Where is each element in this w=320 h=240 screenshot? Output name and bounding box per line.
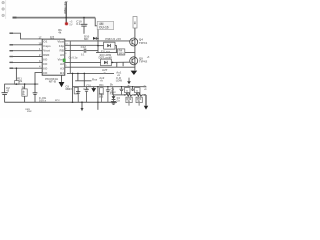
capacitor C7 bbox=[77, 87, 79, 92]
wire vertical bus bbox=[69, 41, 71, 74]
wire bbox=[115, 46, 116, 53]
junction red node bbox=[64, 22, 68, 26]
svg-text:R12: R12 bbox=[110, 93, 115, 95]
svg-text:Caps: Caps bbox=[43, 44, 51, 48]
resistor R50 bbox=[136, 97, 142, 102]
junction bbox=[97, 38, 99, 40]
svg-text:LDW: LDW bbox=[116, 79, 123, 83]
optocoupler D1 bbox=[104, 42, 115, 49]
ground arrow below bus bbox=[81, 102, 83, 108]
svg-text:I/O: I/O bbox=[43, 58, 48, 62]
junction bbox=[97, 86, 98, 87]
junction bbox=[124, 94, 125, 95]
wire bbox=[98, 45, 104, 47]
svg-text:0.1: 0.1 bbox=[76, 22, 81, 26]
wire vertical bbox=[97, 87, 99, 110]
connector stubs left bbox=[10, 32, 14, 34]
svg-text:A0: A0 bbox=[60, 53, 64, 57]
svg-text:Vout: Vout bbox=[43, 49, 49, 53]
short rail bbox=[75, 80, 91, 82]
optocoupler D3 bbox=[101, 59, 112, 66]
wire top +5V bus bbox=[13, 17, 96, 19]
capacitor mini bbox=[132, 87, 134, 89]
svg-text:I/O: I/O bbox=[43, 62, 48, 66]
svg-text:x2 x: x2 x bbox=[55, 100, 60, 102]
svg-text:+k: +k bbox=[103, 71, 107, 75]
svg-text:3R3: 3R3 bbox=[119, 51, 125, 55]
mini ground triangle bbox=[128, 78, 130, 82]
wire row 7 L bbox=[35, 73, 42, 85]
svg-text:TIP41: TIP41 bbox=[139, 41, 148, 45]
svg-text:Vbat: Vbat bbox=[57, 40, 64, 44]
resistor box bbox=[124, 88, 130, 93]
wire stub bbox=[138, 103, 140, 106]
wire row 6 bbox=[10, 67, 42, 69]
resistor box row bbox=[100, 88, 104, 94]
resistor R6 bbox=[24, 84, 26, 89]
connector J1 pin 1 bbox=[2, 1, 4, 3]
wire stub bbox=[116, 62, 118, 67]
wire vertical to R11 bbox=[15, 68, 17, 80]
svg-text:14p: 14p bbox=[59, 44, 64, 48]
ground small bbox=[93, 87, 95, 89]
resistor R49 bbox=[126, 97, 132, 102]
resistor R4 bbox=[118, 49, 125, 55]
transistor Q5 bbox=[130, 57, 138, 65]
svg-text:O1: O1 bbox=[43, 40, 47, 44]
svg-text:C10: C10 bbox=[83, 87, 89, 91]
ground bottom right bbox=[145, 95, 147, 106]
ground below IC bbox=[61, 75, 63, 82]
svg-text:4k8: 4k8 bbox=[21, 91, 25, 96]
diode D4 (vertical) bbox=[113, 95, 115, 96]
connector J1 pin 3 bbox=[2, 14, 4, 16]
diode D10 bbox=[93, 37, 96, 40]
junction bbox=[16, 83, 18, 85]
resistor R11 bbox=[15, 81, 19, 85]
svg-text:2k: 2k bbox=[110, 82, 114, 86]
wire + capacitor C12 bbox=[65, 50, 84, 52]
svg-text:Rxx: Rxx bbox=[92, 78, 98, 82]
svg-text:Gx: Gx bbox=[117, 99, 121, 102]
capacitor C2 bbox=[4, 84, 6, 92]
mid-right rail bbox=[73, 86, 147, 88]
wire row 1 stepped bbox=[10, 33, 42, 39]
wire row 2 bbox=[10, 44, 42, 46]
wire stub bbox=[122, 62, 124, 66]
svg-text:A2: A2 bbox=[60, 62, 64, 66]
ground small left bbox=[111, 101, 116, 103]
junction bbox=[83, 17, 85, 19]
resistor rail with zigzags bbox=[113, 94, 126, 96]
svg-text:MC: MC bbox=[84, 37, 88, 41]
wire crystal bbox=[65, 2, 67, 23]
transistor Q4 bbox=[130, 38, 138, 46]
svg-text:C10: C10 bbox=[86, 84, 91, 87]
wire IC pin right row2 bbox=[65, 44, 98, 46]
junction bbox=[65, 17, 67, 19]
svg-text:B4: B4 bbox=[60, 71, 64, 75]
wire vertical bbox=[112, 87, 114, 95]
resistor box bbox=[134, 88, 140, 93]
svg-text:R11: R11 bbox=[99, 84, 104, 87]
svg-text:RB0: RB0 bbox=[43, 53, 49, 57]
wire vertical net bbox=[97, 30, 99, 53]
svg-text:A3: A3 bbox=[60, 67, 64, 71]
wire row 3 bbox=[10, 50, 42, 52]
capacitor C10 bbox=[86, 87, 88, 90]
svg-text:+k: +k bbox=[100, 78, 104, 82]
svg-text:1k: 1k bbox=[133, 21, 137, 25]
junction bbox=[72, 73, 74, 75]
wire bbox=[134, 28, 136, 70]
capacitor C3 bbox=[34, 84, 36, 93]
svg-text:xxx: xxx bbox=[27, 110, 32, 113]
svg-text:C7: C7 bbox=[69, 87, 73, 91]
wire verticals mid bbox=[72, 73, 74, 102]
junction bbox=[72, 101, 74, 103]
svg-text:4k: 4k bbox=[58, 30, 62, 34]
svg-text:I/O: I/O bbox=[43, 67, 48, 71]
resistor R3 top right bbox=[133, 17, 137, 29]
wire mid rail bbox=[96, 52, 135, 54]
connector J1 pin 2 bbox=[2, 8, 4, 10]
green pin marker bbox=[63, 59, 66, 63]
svg-text:5V: 5V bbox=[69, 23, 73, 27]
wire row 4 bbox=[10, 56, 42, 58]
resistor box bbox=[74, 88, 78, 94]
bottom bus bbox=[4, 101, 117, 103]
svg-text:Cx 0.1u: Cx 0.1u bbox=[69, 57, 78, 60]
wire stub bbox=[128, 103, 130, 106]
capacitor bbox=[107, 87, 109, 90]
svg-text:OU-16: OU-16 bbox=[99, 25, 109, 29]
wire IC pin right row6 bbox=[65, 66, 135, 68]
junction bbox=[97, 45, 99, 47]
svg-text:NT-B: NT-B bbox=[49, 79, 57, 83]
svg-text:I/O: I/O bbox=[43, 71, 48, 75]
ground below Q5 bbox=[131, 71, 138, 75]
capacitor C1 bbox=[83, 18, 85, 24]
svg-text:P98 U4 +5V: P98 U4 +5V bbox=[105, 37, 121, 41]
svg-text:TIP42: TIP42 bbox=[139, 60, 148, 64]
junction bbox=[112, 62, 114, 64]
wire IC pin right row5 bbox=[65, 61, 101, 63]
rail bottom-left bbox=[4, 83, 38, 85]
wire to net label bbox=[95, 18, 97, 26]
wire bottom row bbox=[67, 72, 114, 74]
capacitor right row bbox=[121, 87, 123, 89]
wire bbox=[100, 94, 102, 102]
wire IC pin right row1 bbox=[65, 40, 130, 42]
border strip bbox=[5, 0, 7, 19]
wire row 5 bbox=[10, 61, 42, 63]
wire bbox=[111, 61, 130, 63]
net label box 4MHz bbox=[97, 21, 113, 29]
